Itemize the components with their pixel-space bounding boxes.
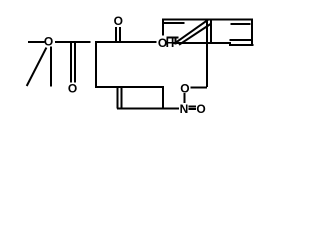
stray bond near OH top bar [167, 37, 179, 39]
stray bond near OH mid bar [173, 42, 179, 44]
bond corner vertical above OH [162, 20, 164, 36]
svg-text:O: O [196, 102, 205, 116]
bond lower ring right vertical [162, 87, 164, 109]
bond diagonal methyl left [27, 48, 47, 86]
aromatic inner line top left [164, 22, 185, 24]
bond vertical methyl below O1 [50, 47, 52, 87]
bond aromatic ring top edge [162, 19, 253, 21]
svg-text:H: H [166, 36, 175, 50]
bond O4 to N [184, 93, 186, 103]
double bond N=O5 line 2 [189, 108, 197, 110]
double bond C=O3 line 2 [119, 27, 121, 42]
bond ring bottom edge right part [229, 39, 253, 41]
bond CH2 to O4 [191, 86, 208, 88]
double bond C=O2 line 2 [74, 42, 76, 83]
bond ring bottom edge left part [176, 42, 231, 44]
svg-text:O: O [68, 82, 77, 96]
svg-text:N: N [180, 102, 189, 116]
double bond lower ring line 2 [121, 87, 123, 109]
double bond C=O2 line 1 [70, 42, 72, 83]
bond ring left vertical long to CH2 [206, 20, 208, 87]
svg-text:O: O [44, 34, 53, 48]
bond diagonal 2 parallel [179, 24, 211, 45]
double bond C=O3 line 1 [115, 27, 117, 42]
bond lower ring bottom edge to N [117, 108, 179, 110]
svg-text:O: O [180, 81, 189, 95]
aromatic inner line top right [231, 23, 251, 25]
bond diagonal 1 OH carbon to ring [176, 20, 208, 43]
bond O1 to carbonyl chain [55, 41, 90, 43]
bond methyl to O1 [28, 41, 45, 43]
bond ring left vertical [95, 42, 97, 87]
aromatic inner vertical left [210, 20, 212, 44]
bond ring right vertical [251, 20, 253, 45]
double bond N=O5 line 1 [189, 106, 197, 108]
bond horizontal chain to OH [95, 41, 156, 43]
bond lower ring top edge [95, 86, 164, 88]
double bond lower ring line 1 [117, 87, 119, 109]
stray bond near OH vertical [174, 37, 176, 45]
svg-text:O: O [114, 14, 123, 28]
aromatic inner line bottom right [229, 44, 254, 46]
